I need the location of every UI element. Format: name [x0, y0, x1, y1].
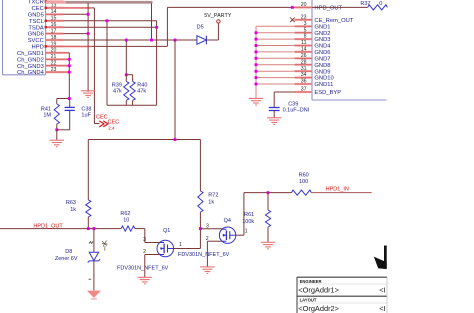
svg-text:100k: 100k [242, 219, 254, 225]
wire Q1 source to gnd [145, 255, 160, 278]
svg-text:ESD_BYP: ESD_BYP [314, 90, 341, 96]
svg-text:8: 8 [304, 34, 307, 40]
wire TSDA pin17 [64, 26, 157, 28]
svg-text:LAYOUT: LAYOUT [300, 298, 317, 303]
junction dots gnd bus [255, 31, 258, 85]
pin 36 GND11 (right connector) [295, 79, 334, 89]
svg-text:R62: R62 [120, 211, 130, 217]
wire pullup rail top [88, 139, 200, 141]
black cursor arrow [374, 246, 387, 270]
pin 23 CE_Rem_OUT (right connector) [295, 14, 354, 24]
ground below C39 [267, 118, 281, 125]
wire node below R41/C38 [57, 129, 70, 131]
svg-text:Q4: Q4 [224, 218, 231, 224]
svg-text:D5: D5 [197, 25, 204, 31]
pin 22 Ch_GND2 (left connector) [17, 57, 69, 66]
wire GND bus vertical [255, 26, 257, 98]
svg-text:Q1: Q1 [163, 228, 170, 234]
svg-text:1: 1 [245, 228, 248, 234]
svg-text:R63: R63 [66, 200, 76, 206]
wire Q4 source to gnd [207, 241, 222, 266]
pin 28 GND8 (right connector) [295, 59, 331, 69]
resistor R61 100k [242, 193, 270, 242]
wire jog to Q1 drain [145, 229, 160, 243]
resistor R40 47k [130, 75, 147, 106]
svg-text:Zener 6V: Zener 6V [55, 256, 78, 262]
pin 14 CEC (left connector) [32, 6, 64, 15]
pin 20 HPD (left connector) [32, 45, 64, 54]
svg-text:TXCR: TXCR [28, 0, 44, 6]
pin 15 GND5 (left connector) [28, 12, 64, 21]
svg-text:CEC: CEC [96, 114, 108, 120]
svg-text:SVCC: SVCC [28, 38, 44, 44]
svg-text:GND11: GND11 [314, 82, 333, 88]
pin 16 TSCL (left connector) [29, 19, 64, 28]
svg-text:ENGINEER: ENGINEER [300, 279, 322, 284]
svg-text:1: 1 [179, 242, 182, 248]
ground (GND5/GND6) [81, 91, 95, 98]
svg-text:<OrgAddr1>: <OrgAddr1> [298, 286, 339, 295]
svg-text:10: 10 [123, 218, 129, 224]
svg-text:Ch_GND4: Ch_GND4 [17, 70, 45, 76]
pin 26 GND7 (right connector) [295, 53, 331, 63]
ground below D8 (filled style) [87, 291, 101, 299]
title block table [297, 277, 387, 313]
wire riser x=151.5 (thick-bar to SVCC row) [151, 3, 153, 40]
svg-text:GND10: GND10 [314, 76, 333, 82]
svg-text:1uF: 1uF [81, 112, 91, 118]
svg-text:47k: 47k [113, 89, 122, 95]
svg-text:2: 2 [206, 236, 209, 242]
connector body right [312, 0, 387, 100]
svg-text:R40: R40 [137, 82, 147, 88]
svg-text:HPD: HPD [32, 45, 44, 51]
svg-text:3: 3 [143, 237, 146, 243]
ground below Q4 [200, 267, 214, 274]
svg-text:2,4: 2,4 [108, 126, 115, 131]
pin 20 HPD_OUT (right connector) [295, 2, 343, 12]
wire TSCL pin16 run [64, 21, 157, 105]
pin 31 GND9 (right connector) [295, 66, 331, 76]
svg-text:GND3: GND3 [314, 37, 330, 43]
wire SVCC pin19 run to D5 anode [64, 39, 197, 41]
pin 5 GND2 (right connector) [295, 27, 331, 37]
transistor Q1 FDV301N [157, 228, 174, 257]
svg-text:GND5: GND5 [28, 12, 44, 18]
junction dot [68, 97, 71, 100]
pin 19 SVCC (left connector) [28, 38, 64, 47]
svg-text:0.1uF–DNI: 0.1uF–DNI [283, 108, 310, 114]
wire ground drop x=88.1 [87, 3, 89, 92]
wire HPD1_IN row [244, 192, 292, 194]
svg-text:Ch_GND1: Ch_GND1 [17, 51, 44, 57]
no-connect X on CE_Rem_OUT [290, 18, 295, 22]
pin 18 GND6 (left connector) [28, 32, 64, 41]
svg-text:HPD_OUT: HPD_OUT [314, 6, 342, 12]
svg-text:3: 3 [304, 21, 307, 27]
svg-text:HPD1_IN: HPD1_IN [326, 187, 349, 193]
pin 11 GND4 (right connector) [295, 40, 332, 50]
wire pin37 to C39 [274, 92, 294, 107]
svg-text:GND8: GND8 [314, 63, 330, 69]
wire CEC pin14 run [64, 8, 100, 124]
wire to Q4 drain [200, 228, 222, 230]
svg-text:<OrgAddr2>: <OrgAddr2> [298, 304, 339, 313]
wire HPD pin20 to HPD_OUT [64, 7, 313, 46]
svg-text:HPD1_OUT: HPD1_OUT [33, 223, 63, 229]
pin 13 TXCR (left connector) [28, 0, 63, 9]
wire left drop to R63 [87, 140, 89, 200]
svg-text:R37: R37 [360, 1, 370, 7]
wire HPD1_OUT row [0, 228, 121, 230]
wire Q4 gate riser [236, 193, 244, 236]
svg-text:5V_PARTY: 5V_PARTY [204, 13, 231, 19]
svg-text:1k: 1k [70, 207, 76, 213]
svg-text:2: 2 [143, 249, 146, 255]
power symbol 5V_PARTY [204, 13, 231, 23]
svg-text:0: 0 [379, 1, 382, 7]
svg-text:1k: 1k [208, 200, 214, 206]
ground below gnd bus [249, 98, 263, 105]
svg-text:CE_Rem_OUT: CE_Rem_OUT [314, 18, 353, 24]
svg-text:TSDA: TSDA [28, 25, 44, 31]
junction dot HPD_OUT [291, 6, 294, 9]
svg-text:100: 100 [299, 179, 308, 185]
svg-text:Ch_GND3: Ch_GND3 [17, 64, 44, 70]
pin 3 GND1 (right connector) [295, 21, 331, 31]
resistor R72 1k [198, 140, 219, 229]
wire node above R41/C38 [57, 98, 70, 100]
gnd bus wires to right connector [256, 26, 295, 84]
svg-text:Ch_GND2: Ch_GND2 [17, 57, 44, 63]
resistor R39 47k [112, 75, 129, 106]
svg-text:GND2: GND2 [314, 31, 330, 37]
pin 24 Ch_GND4 (left connector) [17, 70, 69, 76]
svg-text:R60: R60 [299, 172, 309, 178]
off-page connector CEC 2,4 [99, 120, 119, 131]
svg-text:TSCL: TSCL [29, 19, 45, 25]
svg-text:D8: D8 [65, 249, 72, 255]
wire rail below R39/R40 [107, 104, 157, 106]
svg-text:37: 37 [301, 87, 307, 93]
svg-text:3: 3 [206, 223, 209, 229]
pin 37 ESD_BYP (right connector) [295, 87, 342, 97]
svg-text:1M: 1M [43, 112, 51, 118]
resistor R37 0 [312, 1, 387, 10]
connector J_left body [3, 0, 46, 75]
svg-text:<I: <I [379, 286, 385, 295]
svg-text:34: 34 [301, 72, 307, 78]
diode D8 Zener 6V [55, 229, 100, 291]
svg-text:31: 31 [301, 66, 307, 72]
svg-text:36: 36 [301, 79, 307, 85]
transistor Q4 FDV301N [219, 218, 235, 244]
svg-text:<I: <I [379, 304, 385, 313]
svg-text:5: 5 [304, 27, 307, 33]
resistor R41 1M [41, 99, 59, 130]
pin 23 Ch_GND3 (left connector) [17, 64, 69, 73]
pin 34 GND10 (right connector) [295, 72, 334, 82]
svg-text:R72: R72 [208, 193, 218, 199]
pin 21 Ch_GND1 (left connector) [17, 51, 69, 60]
pin 8 GND3 (right connector) [295, 34, 331, 44]
svg-text:R61: R61 [244, 212, 254, 218]
ground below R41 [50, 140, 64, 147]
ground below Q1 [138, 277, 152, 284]
ground below R61 [261, 242, 275, 249]
svg-text:GND9: GND9 [314, 69, 330, 75]
capacitor C39 0.1uF-DNI [269, 102, 310, 118]
resistor R60 100 [292, 172, 372, 195]
svg-text:GND4: GND4 [314, 44, 331, 50]
svg-text:R39: R39 [112, 82, 122, 88]
wire Q1 gate riser [174, 229, 201, 249]
svg-text:GND1: GND1 [314, 24, 330, 30]
node junction dots top-left [68, 13, 177, 74]
svg-text:CEC: CEC [32, 6, 44, 12]
wire drop x=126.3 SVCC to R39/R40 top [126, 40, 132, 75]
svg-text:GND6: GND6 [28, 32, 44, 38]
svg-text:28: 28 [301, 59, 307, 65]
resistor R63 1k [66, 200, 91, 229]
wire stem to ground [56, 130, 58, 140]
svg-text:20: 20 [301, 2, 307, 8]
svg-text:GND6: GND6 [314, 50, 330, 56]
wire drop x=107 to R39/R40 rail [106, 21, 108, 105]
capacitor C38 1uF [65, 99, 92, 130]
wire D5 cathode to 5V_PARTY [206, 23, 218, 40]
wire HPD net thick highlighted segment [46, 1, 66, 4]
svg-text:GND7: GND7 [314, 56, 330, 62]
svg-text:26: 26 [301, 53, 307, 59]
svg-text:23: 23 [301, 14, 307, 20]
svg-text:14: 14 [301, 47, 307, 53]
svg-text:11: 11 [301, 40, 306, 46]
wire GND6 pin18 [64, 33, 89, 35]
svg-text:FDV301N_NFET_6V: FDV301N_NFET_6V [178, 252, 230, 258]
pin 14 GND6 (right connector) [295, 47, 331, 57]
resistor R62 10 [120, 211, 144, 231]
diode D5 [197, 25, 207, 45]
small annotation marks near D8 [89, 240, 108, 250]
wire Ch_GND bus x=69.3 [68, 53, 70, 99]
wire drop x=175 to pullup rail [174, 40, 176, 140]
svg-text:47k: 47k [137, 89, 146, 95]
pin 17 TSDA (left connector) [28, 25, 63, 34]
svg-text:FDV301N_NFET_6V: FDV301N_NFET_6V [117, 265, 169, 271]
wire GND5 pin15 [64, 13, 89, 15]
